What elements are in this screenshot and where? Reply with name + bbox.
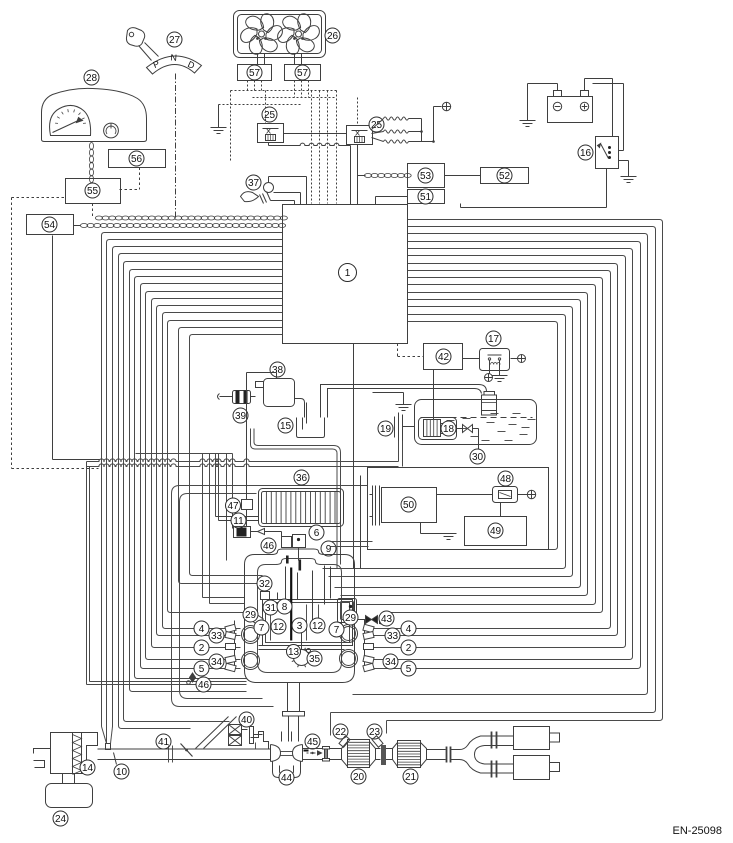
- svg-text:51: 51: [420, 192, 432, 203]
- svg-text:44: 44: [281, 773, 293, 784]
- svg-text:49: 49: [490, 526, 502, 537]
- svg-text:53: 53: [420, 171, 432, 182]
- svg-text:2: 2: [406, 643, 412, 654]
- svg-text:N: N: [170, 52, 177, 62]
- svg-text:3: 3: [297, 621, 303, 632]
- svg-text:25: 25: [371, 120, 383, 131]
- svg-text:39: 39: [235, 411, 247, 422]
- svg-text:5: 5: [406, 664, 412, 675]
- svg-text:4: 4: [406, 624, 412, 635]
- svg-text:52: 52: [499, 171, 511, 182]
- svg-text:EN-25098: EN-25098: [673, 825, 723, 837]
- svg-text:37: 37: [248, 178, 260, 189]
- svg-text:28: 28: [86, 73, 98, 84]
- svg-text:40: 40: [241, 715, 253, 726]
- svg-text:27: 27: [169, 35, 181, 46]
- svg-text:33: 33: [211, 631, 223, 642]
- svg-text:57: 57: [297, 68, 309, 79]
- svg-text:20: 20: [353, 772, 365, 783]
- svg-text:50: 50: [403, 500, 415, 511]
- svg-text:34: 34: [211, 657, 223, 668]
- svg-text:30: 30: [472, 452, 484, 463]
- svg-text:48: 48: [500, 474, 512, 485]
- svg-text:34: 34: [385, 657, 397, 668]
- svg-text:41: 41: [158, 737, 170, 748]
- svg-text:11: 11: [233, 516, 244, 527]
- svg-text:7: 7: [259, 623, 265, 634]
- svg-text:10: 10: [116, 767, 128, 778]
- svg-text:46: 46: [263, 541, 275, 552]
- svg-text:13: 13: [288, 647, 300, 658]
- svg-text:17: 17: [488, 334, 500, 345]
- svg-text:46: 46: [198, 680, 210, 691]
- svg-text:16: 16: [580, 148, 592, 159]
- svg-text:29: 29: [345, 613, 357, 624]
- svg-text:45: 45: [307, 737, 319, 748]
- svg-text:55: 55: [87, 186, 99, 197]
- svg-text:29: 29: [245, 610, 257, 621]
- svg-text:26: 26: [327, 31, 339, 42]
- svg-text:7: 7: [334, 625, 340, 636]
- svg-text:47: 47: [227, 501, 239, 512]
- svg-text:31: 31: [265, 603, 277, 614]
- svg-text:9: 9: [326, 544, 332, 555]
- svg-text:14: 14: [82, 763, 94, 774]
- svg-text:5: 5: [199, 664, 205, 675]
- svg-text:42: 42: [438, 352, 450, 363]
- svg-text:19: 19: [380, 424, 392, 435]
- svg-text:24: 24: [55, 814, 67, 825]
- svg-text:21: 21: [405, 772, 417, 783]
- svg-text:15: 15: [280, 421, 292, 432]
- svg-text:56: 56: [131, 154, 143, 165]
- svg-text:38: 38: [272, 365, 284, 376]
- svg-text:8: 8: [282, 602, 288, 613]
- svg-text:57: 57: [249, 68, 261, 79]
- svg-text:12: 12: [312, 621, 324, 632]
- svg-text:2: 2: [199, 643, 205, 654]
- svg-text:6: 6: [314, 528, 320, 539]
- svg-text:4: 4: [199, 624, 205, 635]
- svg-text:18: 18: [443, 424, 455, 435]
- svg-text:43: 43: [381, 614, 393, 625]
- svg-text:12: 12: [273, 622, 285, 633]
- svg-text:36: 36: [296, 473, 308, 484]
- svg-text:54: 54: [44, 220, 56, 231]
- svg-text:23: 23: [369, 727, 381, 738]
- svg-text:32: 32: [259, 579, 271, 590]
- svg-text:33: 33: [387, 631, 399, 642]
- svg-text:35: 35: [309, 654, 321, 665]
- svg-text:1: 1: [345, 268, 351, 279]
